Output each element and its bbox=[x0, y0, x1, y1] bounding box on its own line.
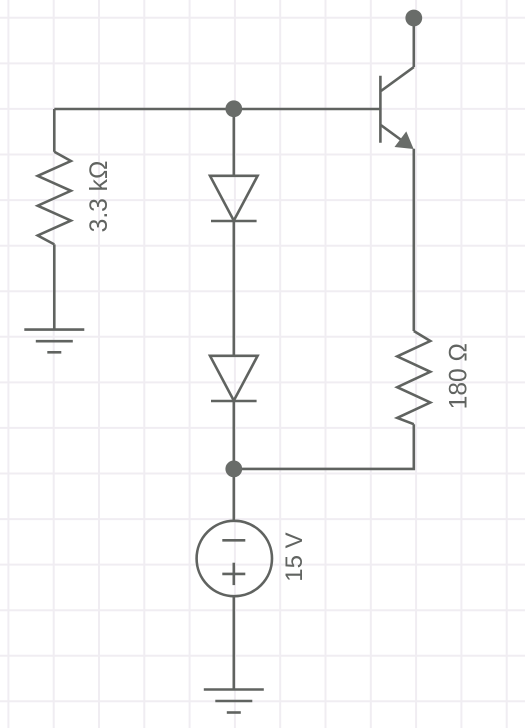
node: collector supply terminal dot bbox=[405, 10, 422, 27]
wire: emitter down to resistor 180 bbox=[412, 149, 415, 331]
svg-text:180 Ω: 180 Ω bbox=[446, 343, 473, 409]
ground: left ground symbol bbox=[24, 330, 84, 353]
svg-text:15 V: 15 V bbox=[281, 532, 308, 581]
wire: terminal dot to transistor collector bbox=[412, 18, 415, 67]
wire: resistor R2 down and left to node B bbox=[234, 424, 414, 469]
diode D1 bbox=[210, 176, 258, 221]
wire: base wire from node A to transistor base bbox=[234, 108, 381, 111]
wire: diode D1 to diode D2 bbox=[233, 221, 236, 356]
label: 180 Ohm value bbox=[446, 343, 473, 409]
svg-text:3.3 kΩ: 3.3 kΩ bbox=[86, 161, 113, 233]
node A: junction dot at top rail bbox=[225, 100, 242, 117]
wire: resistor R1 to ground bbox=[53, 244, 56, 329]
label: 15 V value bbox=[281, 532, 308, 581]
wire: top rail from left branch to node A bbox=[54, 108, 234, 111]
wire: diode D2 to node B bbox=[233, 401, 236, 469]
wire: node B to voltage source V1 bbox=[233, 469, 236, 521]
diode D2 bbox=[210, 356, 258, 401]
transistor Q1 (NPN) bbox=[380, 67, 413, 149]
resistor R2 180 Ohm bbox=[397, 331, 430, 424]
wire: node A down to resistor 3.3k, left leg bbox=[53, 109, 56, 152]
wire: node A down to diode D1 bbox=[233, 109, 236, 176]
node B: junction dot above source bbox=[225, 461, 242, 478]
resistor R1 3.3 kOhm bbox=[38, 152, 71, 245]
wire: voltage source V1 to bottom ground bbox=[233, 596, 236, 689]
label: 3.3 kOhm value bbox=[86, 161, 113, 233]
ground: bottom ground symbol bbox=[204, 690, 264, 713]
voltage source V1 (15 V) bbox=[197, 521, 272, 596]
